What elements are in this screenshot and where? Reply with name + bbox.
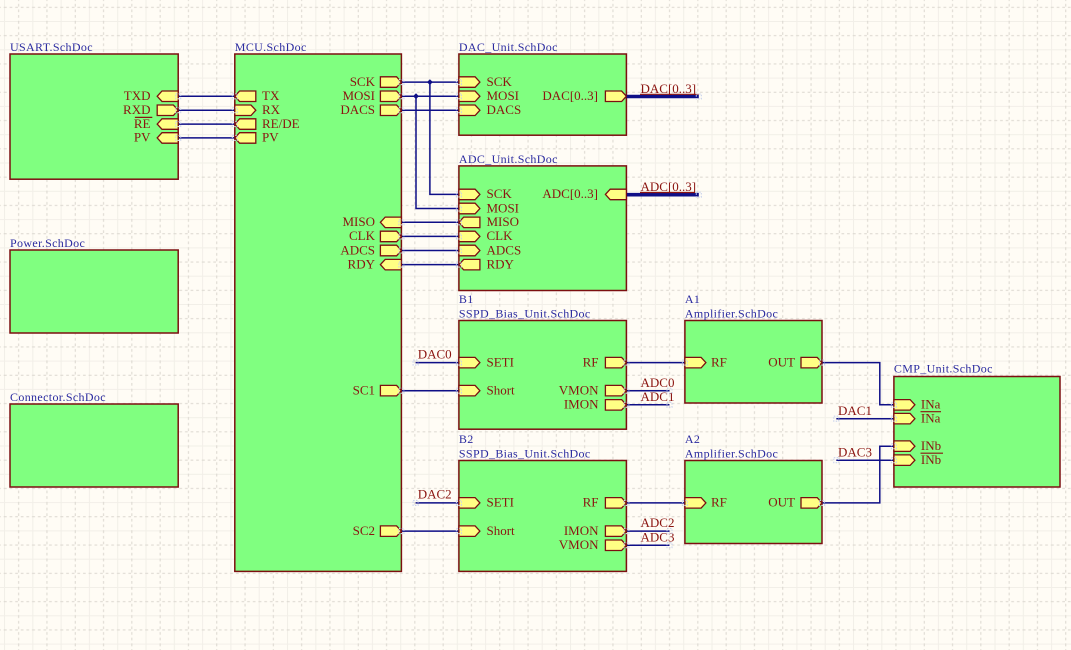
net label DAC[0..3] [640, 81, 699, 96]
svg-text:RDY: RDY [348, 256, 376, 271]
sheet entry TXD (USART) [124, 88, 178, 103]
svg-text:INa: INa [921, 411, 941, 426]
svg-text:RXD: RXD [123, 102, 150, 117]
wire A2 OUT to CMP INb [822, 446, 894, 503]
wire connection hotspot markers [176, 80, 897, 548]
svg-text:OUT: OUT [768, 354, 795, 369]
sheet entry MOSI (ADC_Unit) [459, 200, 519, 215]
sheet entry ADC[0..3] (ADC_Unit) [542, 186, 626, 201]
svg-text:ADC_Unit.SchDoc: ADC_Unit.SchDoc [459, 152, 558, 166]
sheet entry SC2 (MCU) [353, 523, 402, 538]
wire RDY MCU-ADC [401, 264, 459, 266]
wire ADC0 from B1 VMON [626, 390, 669, 392]
wire A1 OUT to CMP INa [822, 363, 894, 405]
wire ADC2 from B2 IMON [626, 530, 669, 532]
sheet entry OUT (A1) [768, 354, 822, 369]
svg-text:VMON: VMON [559, 383, 599, 398]
sheet symbol A2 Amplifier.SchDoc [685, 432, 822, 544]
svg-text:RDY: RDY [487, 256, 515, 271]
svg-text:MOSI: MOSI [342, 88, 375, 103]
sheet entry RF (A1) [685, 354, 727, 369]
junction SCK [427, 79, 433, 85]
wire MISO MCU-ADC [401, 221, 459, 223]
sheet entry RF (B1) [583, 354, 627, 369]
svg-text:PV: PV [262, 130, 279, 145]
sheet symbol CMP_Unit.SchDoc [894, 362, 1060, 487]
svg-text:DACS: DACS [487, 102, 522, 117]
junction MOSI [413, 93, 419, 99]
svg-text:MISO: MISO [487, 214, 520, 229]
sheet entry MOSI (MCU) [342, 88, 401, 103]
svg-text:A2: A2 [685, 432, 700, 446]
sheet entry IMON (B1) [564, 397, 627, 412]
sheet entry DACS (MCU) [340, 102, 401, 117]
wire ADCS MCU-ADC [401, 250, 459, 252]
wire DACS MCU-DAC [401, 109, 459, 111]
sheet entry DAC[0..3] (DAC_Unit) [542, 88, 626, 103]
svg-text:Short: Short [487, 523, 516, 538]
svg-text:TXD: TXD [124, 88, 151, 103]
sheet entry RE/DE (MCU) [235, 116, 300, 131]
wire DAC1 to CMP INa- [836, 418, 894, 420]
svg-text:SETI: SETI [487, 495, 514, 510]
sheet entry PV (USART) [134, 130, 178, 145]
sheet symbol A1 Amplifier.SchDoc [685, 292, 822, 403]
sheet symbol DAC_Unit.SchDoc [459, 40, 627, 135]
wire MOSI MCU-DAC [401, 95, 459, 97]
svg-text:INb: INb [921, 438, 941, 453]
wire MOSI branch to ADC [416, 96, 459, 208]
svg-text:ADCS: ADCS [487, 242, 522, 257]
svg-text:B1: B1 [459, 292, 474, 306]
sheet entry SETI (B1) [459, 354, 514, 369]
sheet symbol ADC_Unit.SchDoc [459, 152, 627, 290]
wire RXD USART-MCU [178, 109, 235, 111]
sheet entry RF (B2) [583, 495, 627, 510]
svg-text:SCK: SCK [487, 74, 513, 89]
svg-text:ADC[0..3]: ADC[0..3] [542, 186, 598, 201]
wire B1 RF to A1 RF [626, 362, 685, 364]
svg-text:IMON: IMON [564, 397, 599, 412]
sheet entry RDY (MCU) [348, 256, 402, 271]
svg-text:Connector.SchDoc: Connector.SchDoc [10, 390, 106, 404]
sheet entry INb (CMP) [894, 438, 941, 453]
svg-text:ADC0: ADC0 [641, 375, 675, 390]
sheet entry PV (MCU) [235, 130, 279, 145]
svg-text:MOSI: MOSI [487, 200, 520, 215]
svg-text:RF: RF [583, 354, 599, 369]
sheet entry VMON (B2) [559, 537, 627, 552]
sheet entry MISO (MCU) [342, 214, 401, 229]
svg-text:MOSI: MOSI [487, 88, 520, 103]
sheet entry SCK (ADC_Unit) [459, 186, 513, 201]
sheet entry MISO (ADC_Unit) [459, 214, 519, 229]
wire RE USART-MCU [178, 123, 235, 125]
svg-text:ADC2: ADC2 [641, 515, 675, 530]
sheet entry INa (CMP) [894, 397, 941, 412]
sheet entry VMON (B1) [559, 383, 627, 398]
sheet entry IMON (B2) [564, 523, 627, 538]
sheet entry RF (A2) [685, 495, 727, 510]
svg-text:TX: TX [262, 88, 280, 103]
svg-text:CLK: CLK [487, 228, 514, 243]
svg-text:USART.SchDoc: USART.SchDoc [10, 40, 93, 54]
svg-text:RX: RX [262, 102, 281, 117]
svg-text:RF: RF [711, 354, 727, 369]
svg-text:Amplifier.SchDoc: Amplifier.SchDoc [685, 306, 778, 320]
sheet entry SETI (B2) [459, 495, 514, 510]
wire SC1 MCU-B1 Short [401, 390, 459, 392]
svg-text:SC2: SC2 [353, 523, 375, 538]
svg-text:MCU.SchDoc: MCU.SchDoc [235, 40, 307, 54]
sheet symbol USART.SchDoc [10, 40, 178, 179]
svg-text:Amplifier.SchDoc: Amplifier.SchDoc [685, 446, 778, 460]
svg-text:IMON: IMON [564, 523, 599, 538]
svg-text:SSPD_Bias_Unit.SchDoc: SSPD_Bias_Unit.SchDoc [459, 446, 591, 460]
sheet entry RX (MCU) [235, 102, 281, 117]
svg-text:ADCS: ADCS [340, 242, 375, 257]
svg-text:PV: PV [134, 130, 151, 145]
svg-text:MISO: MISO [342, 214, 375, 229]
sheet entry MOSI (DAC_Unit) [459, 88, 519, 103]
svg-text:DAC2: DAC2 [418, 487, 452, 502]
svg-text:INa: INa [921, 397, 941, 412]
sheet entry CLK (ADC_Unit) [459, 228, 513, 243]
net label ADC[0..3] [640, 179, 696, 194]
sheet entry CLK (MCU) [349, 228, 401, 243]
sheet entry TX (MCU) [235, 88, 280, 103]
svg-text:DAC0: DAC0 [418, 346, 452, 361]
svg-text:ADC1: ADC1 [641, 389, 675, 404]
sheet symbol B1 SSPD_Bias_Unit.SchDoc [459, 292, 627, 429]
svg-text:SCK: SCK [350, 74, 376, 89]
wire ADC3 from B2 VMON [626, 544, 669, 546]
wire CLK MCU-ADC [401, 235, 459, 237]
svg-text:OUT: OUT [768, 495, 795, 510]
svg-text:CLK: CLK [349, 228, 376, 243]
wire DAC0 to B1 SETI [416, 362, 459, 364]
wire TXD USART-MCU [178, 95, 235, 97]
svg-text:DAC[0..3]: DAC[0..3] [542, 88, 598, 103]
sheet entry SCK (MCU) [350, 74, 402, 89]
sheet entry SCK (DAC_Unit) [459, 74, 513, 89]
wire SCK branch to ADC [430, 82, 459, 194]
sheet entry DACS (DAC_Unit) [459, 102, 521, 117]
sheet symbol B2 SSPD_Bias_Unit.SchDoc [459, 432, 627, 571]
sheet entry OUT (A2) [768, 495, 822, 510]
bus DAC[0..3] [626, 95, 698, 99]
svg-text:SC1: SC1 [353, 383, 375, 398]
svg-text:Short: Short [487, 383, 516, 398]
wire DAC2 to B2 SETI [416, 502, 459, 504]
sheet entry Short (B2) [459, 523, 515, 538]
sheet entry RE (USART, active low) [134, 116, 178, 131]
svg-text:DAC1: DAC1 [838, 403, 872, 418]
sheet entry ADCS (ADC_Unit) [459, 242, 521, 257]
wire PV USART-MCU [178, 137, 235, 139]
svg-text:SCK: SCK [487, 186, 513, 201]
svg-text:DACS: DACS [340, 102, 375, 117]
sheet entry Short (B1) [459, 383, 515, 398]
sheet entry RXD (USART) [123, 102, 178, 117]
svg-text:DAC_Unit.SchDoc: DAC_Unit.SchDoc [459, 40, 558, 54]
svg-text:A1: A1 [685, 292, 700, 306]
wire B2 RF to A2 RF [626, 502, 685, 504]
wire SC2 MCU-B2 Short [401, 530, 459, 532]
svg-text:SETI: SETI [487, 354, 514, 369]
sheet entry RDY (ADC_Unit) [459, 256, 515, 271]
svg-text:RF: RF [711, 495, 727, 510]
sheet entry SC1 (MCU) [353, 383, 402, 398]
bus ADC[0..3] [626, 193, 698, 197]
svg-text:DAC3: DAC3 [838, 444, 872, 459]
svg-text:B2: B2 [459, 432, 474, 446]
svg-text:INb: INb [921, 452, 941, 467]
sheet entry ADCS (MCU) [340, 242, 401, 257]
sheet symbol Connector.SchDoc [10, 390, 178, 487]
sheet entry INb inverted (CMP) [894, 452, 943, 467]
sheet symbol MCU.SchDoc [235, 40, 402, 572]
sheet symbol Power.SchDoc [10, 236, 178, 333]
svg-text:RF: RF [583, 495, 599, 510]
svg-text:VMON: VMON [559, 537, 599, 552]
svg-text:RE: RE [134, 116, 151, 131]
wire DAC3 to CMP INb- [836, 459, 894, 461]
wire ADC1 from B1 IMON [626, 404, 669, 406]
sheet entry INa inverted (CMP) [894, 411, 941, 426]
svg-text:SSPD_Bias_Unit.SchDoc: SSPD_Bias_Unit.SchDoc [459, 306, 591, 320]
svg-text:RE/DE: RE/DE [262, 116, 300, 131]
svg-text:ADC3: ADC3 [641, 529, 675, 544]
wire SCK MCU-DAC [401, 81, 459, 83]
svg-text:CMP_Unit.SchDoc: CMP_Unit.SchDoc [894, 362, 993, 376]
svg-text:Power.SchDoc: Power.SchDoc [10, 236, 85, 250]
